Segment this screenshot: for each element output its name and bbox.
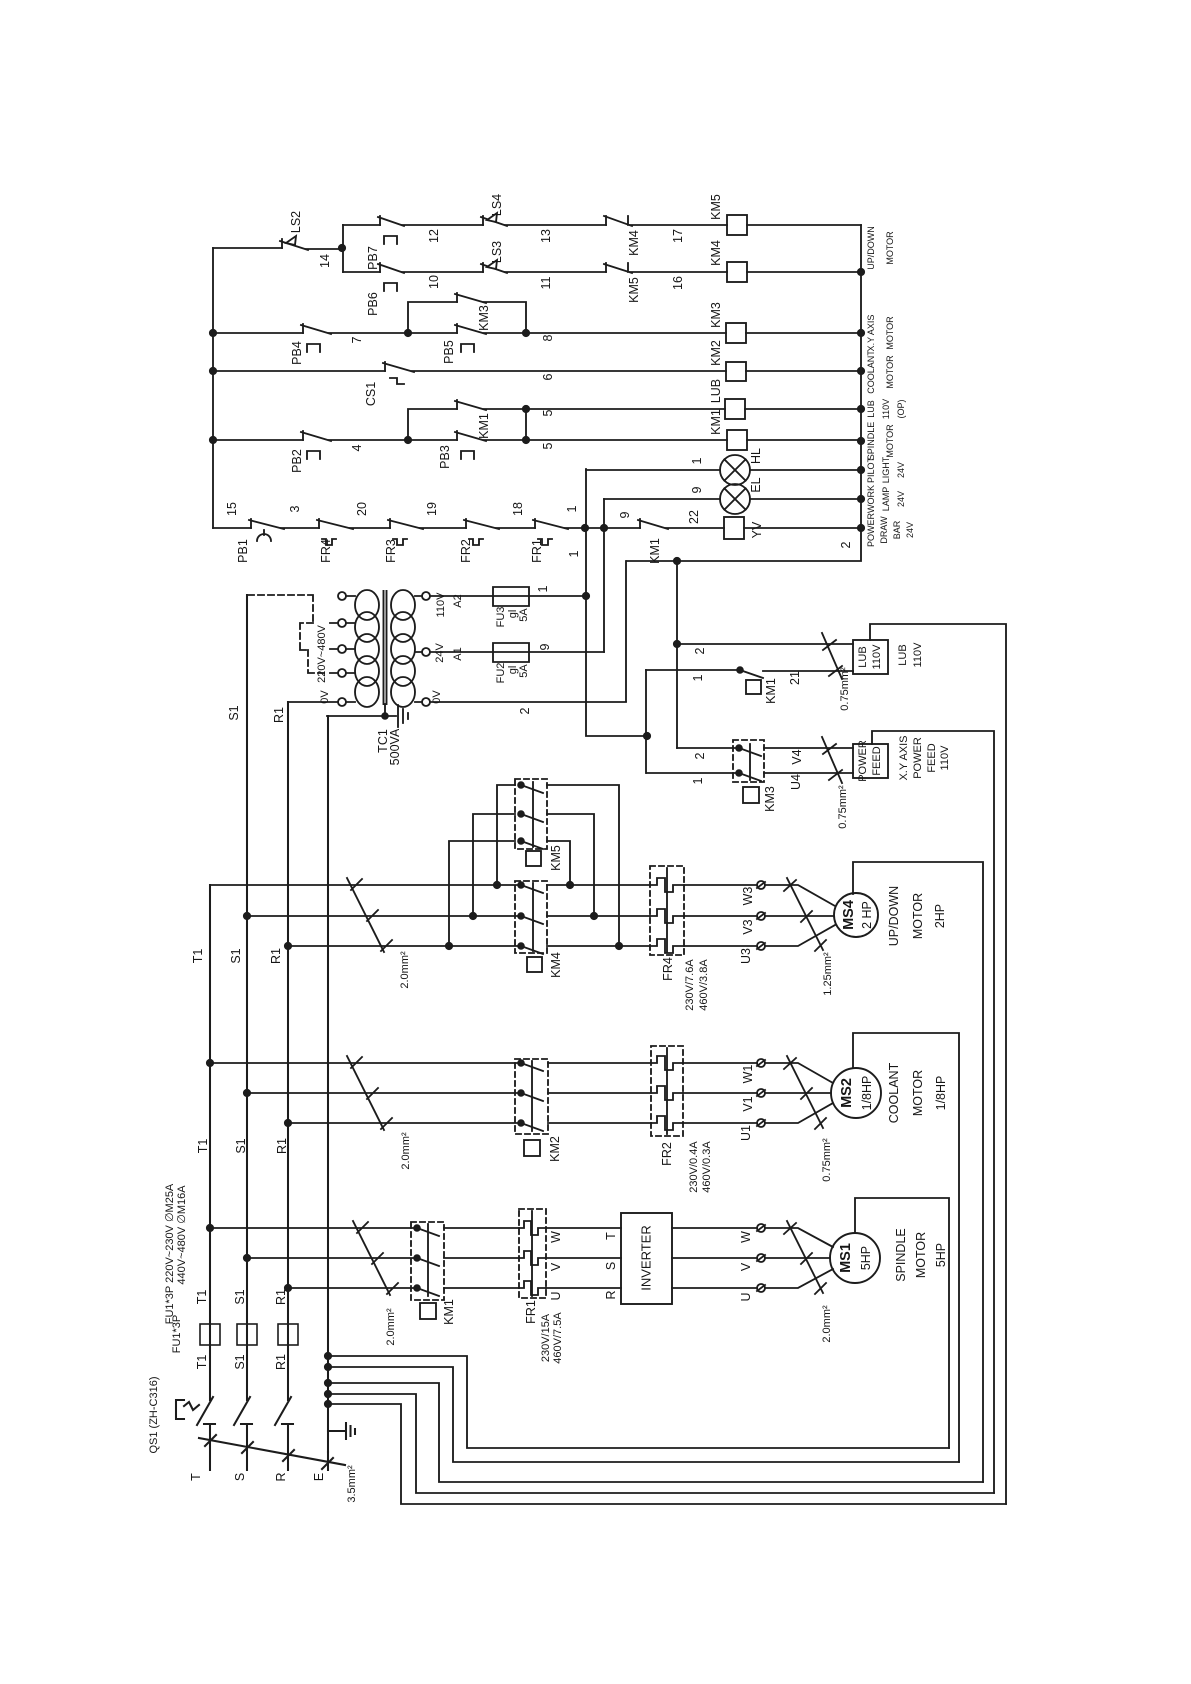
svg-text:BAR: BAR (892, 520, 902, 539)
svg-text:8: 8 (541, 334, 555, 341)
svg-text:QS1 (ZH-C316): QS1 (ZH-C316) (148, 1376, 160, 1453)
svg-text:21: 21 (788, 671, 802, 685)
svg-text:1.25mm²: 1.25mm² (822, 952, 834, 996)
svg-text:FU1*3P 220V~230V ∅M25A: FU1*3P 220V~230V ∅M25A (164, 1183, 176, 1324)
svg-text:U: U (549, 1291, 563, 1300)
svg-text:MS4: MS4 (841, 900, 857, 930)
svg-text:FR2: FR2 (459, 539, 473, 563)
svg-text:X.Y AXIS: X.Y AXIS (898, 735, 910, 780)
svg-text:FR1: FR1 (530, 539, 544, 563)
svg-text:KM3: KM3 (709, 302, 723, 328)
svg-text:110V: 110V (435, 592, 447, 618)
svg-text:KM1: KM1 (648, 538, 662, 564)
svg-text:U1: U1 (739, 1125, 753, 1141)
svg-text:W: W (739, 1231, 753, 1243)
svg-text:E: E (312, 1473, 326, 1481)
svg-text:KM3: KM3 (763, 786, 777, 812)
svg-text:1: 1 (536, 585, 550, 592)
svg-text:110V: 110V (912, 642, 924, 668)
svg-text:LS2: LS2 (289, 211, 303, 233)
svg-text:FR1: FR1 (524, 1300, 538, 1324)
svg-text:PB1: PB1 (236, 539, 250, 563)
svg-text:KM5: KM5 (549, 845, 563, 871)
svg-text:110V: 110V (871, 644, 883, 670)
svg-text:LUB: LUB (709, 379, 723, 403)
svg-text:9: 9 (690, 486, 704, 493)
svg-text:PB3: PB3 (438, 445, 452, 469)
svg-text:R1: R1 (275, 1138, 289, 1154)
svg-text:PB7: PB7 (366, 246, 380, 270)
svg-text:(OP): (OP) (896, 399, 906, 418)
svg-text:V: V (739, 1262, 753, 1271)
svg-text:4: 4 (350, 444, 364, 451)
svg-text:S: S (604, 1262, 618, 1270)
svg-text:220V~480V: 220V~480V (316, 624, 328, 682)
svg-text:20: 20 (355, 502, 369, 516)
svg-text:S1: S1 (233, 1354, 247, 1369)
svg-text:5A: 5A (518, 608, 530, 622)
svg-text:FR2: FR2 (660, 1142, 674, 1166)
svg-text:FR4: FR4 (319, 539, 333, 563)
svg-text:PB5: PB5 (442, 340, 456, 364)
svg-text:T1: T1 (196, 1139, 210, 1154)
svg-text:5: 5 (541, 442, 555, 449)
svg-text:R1: R1 (269, 948, 283, 964)
svg-text:16: 16 (671, 276, 685, 290)
svg-text:MOTOR: MOTOR (911, 1070, 925, 1116)
svg-text:R1: R1 (272, 707, 286, 723)
svg-text:W1: W1 (741, 1065, 755, 1084)
svg-text:T1: T1 (195, 1290, 209, 1305)
svg-text:19: 19 (425, 502, 439, 516)
svg-text:LIGHT: LIGHT (881, 456, 891, 483)
svg-text:2: 2 (693, 647, 707, 654)
svg-text:500VA: 500VA (388, 728, 402, 765)
svg-text:INVERTER: INVERTER (639, 1225, 654, 1291)
svg-text:230V/15A: 230V/15A (540, 1313, 552, 1362)
svg-text:440V~480V ∅M16A: 440V~480V ∅M16A (176, 1185, 188, 1285)
svg-text:MOTOR: MOTOR (914, 1232, 928, 1278)
svg-text:S1: S1 (233, 1289, 247, 1304)
svg-text:U3: U3 (739, 948, 753, 964)
svg-text:S1: S1 (229, 948, 243, 963)
svg-text:2.0mm²: 2.0mm² (821, 1305, 833, 1343)
svg-text:COOLANT: COOLANT (887, 1062, 901, 1123)
svg-text:0V: 0V (431, 690, 443, 704)
svg-text:LUB: LUB (857, 646, 869, 667)
svg-text:EL: EL (749, 477, 763, 492)
svg-text:V: V (549, 1262, 563, 1271)
svg-text:1/8HP: 1/8HP (860, 1076, 874, 1111)
svg-text:2 HP: 2 HP (860, 901, 874, 929)
svg-text:FEED: FEED (926, 743, 938, 772)
svg-text:KM2: KM2 (709, 340, 723, 366)
svg-text:9: 9 (618, 511, 632, 518)
svg-text:6: 6 (541, 373, 555, 380)
svg-text:230V/0.4A: 230V/0.4A (688, 1141, 700, 1193)
svg-text:1/8HP: 1/8HP (934, 1076, 948, 1111)
svg-text:MOTOR: MOTOR (885, 316, 895, 350)
svg-text:S: S (233, 1473, 247, 1481)
svg-text:3: 3 (288, 505, 302, 512)
svg-text:KM4: KM4 (627, 230, 641, 256)
svg-text:13: 13 (539, 229, 553, 243)
svg-text:LUB: LUB (866, 400, 876, 418)
svg-text:R1: R1 (274, 1354, 288, 1370)
svg-text:0.75mm²: 0.75mm² (821, 1138, 833, 1182)
svg-text:SPINDLE: SPINDLE (866, 422, 876, 461)
svg-text:WORK: WORK (866, 485, 876, 513)
svg-text:3.5mm²: 3.5mm² (346, 1465, 358, 1503)
svg-text:0.75mm²: 0.75mm² (839, 667, 851, 711)
svg-text:5: 5 (541, 409, 555, 416)
svg-text:18: 18 (511, 502, 525, 516)
svg-text:KM3: KM3 (477, 305, 491, 331)
svg-text:15: 15 (225, 502, 239, 516)
svg-text:0.75mm²: 0.75mm² (837, 785, 849, 829)
svg-text:PB4: PB4 (290, 341, 304, 365)
svg-text:10: 10 (427, 275, 441, 289)
svg-text:5HP: 5HP (934, 1243, 948, 1267)
svg-text:5HP: 5HP (859, 1246, 873, 1270)
svg-text:V1: V1 (741, 1096, 755, 1111)
svg-text:110V: 110V (939, 745, 951, 771)
svg-text:T: T (604, 1232, 618, 1240)
svg-text:MS1: MS1 (838, 1243, 854, 1273)
svg-text:KM5: KM5 (627, 277, 641, 303)
svg-text:22: 22 (687, 510, 701, 524)
svg-text:R1: R1 (274, 1289, 288, 1305)
svg-text:460V/0.3A: 460V/0.3A (701, 1141, 713, 1193)
svg-text:PILOT: PILOT (866, 456, 876, 483)
svg-text:MOTOR: MOTOR (885, 424, 895, 458)
svg-text:A1: A1 (452, 647, 464, 660)
svg-text:2HP: 2HP (933, 904, 947, 928)
svg-text:FU3: FU3 (495, 607, 507, 628)
svg-text:U: U (739, 1292, 753, 1301)
svg-text:POWER: POWER (912, 737, 924, 779)
svg-text:KM4: KM4 (549, 952, 563, 978)
svg-text:LS4: LS4 (490, 194, 504, 216)
svg-text:MOTOR: MOTOR (885, 231, 895, 265)
svg-text:KM1: KM1 (709, 409, 723, 435)
svg-text:PB2: PB2 (290, 449, 304, 473)
svg-text:R: R (604, 1290, 618, 1299)
svg-text:230V/7.6A: 230V/7.6A (684, 959, 696, 1011)
svg-text:24V: 24V (905, 522, 915, 538)
svg-text:DRAW: DRAW (879, 516, 889, 544)
svg-text:KM2: KM2 (548, 1136, 562, 1162)
svg-text:7: 7 (350, 336, 364, 343)
svg-text:CS1: CS1 (364, 382, 378, 406)
svg-text:11: 11 (539, 276, 553, 289)
svg-text:YV: YV (750, 521, 764, 538)
svg-text:2: 2 (693, 752, 707, 759)
svg-text:1: 1 (565, 505, 579, 512)
svg-text:X.Y AXIS: X.Y AXIS (866, 315, 876, 352)
svg-text:12: 12 (427, 229, 441, 243)
svg-text:14: 14 (318, 254, 332, 268)
svg-text:S1: S1 (234, 1138, 248, 1153)
svg-text:LUB: LUB (897, 644, 909, 665)
svg-text:460V/3.8A: 460V/3.8A (698, 959, 710, 1011)
svg-text:POWER: POWER (866, 513, 876, 548)
svg-text:T1: T1 (195, 1355, 209, 1370)
svg-text:KM1: KM1 (442, 1299, 456, 1325)
svg-text:LS3: LS3 (490, 241, 504, 263)
svg-text:W: W (549, 1231, 563, 1243)
svg-text:17: 17 (671, 229, 685, 243)
svg-text:MS2: MS2 (839, 1078, 855, 1108)
svg-text:T1: T1 (191, 949, 205, 964)
svg-text:T: T (189, 1473, 203, 1481)
svg-text:POWER: POWER (857, 740, 869, 782)
svg-text:KM5: KM5 (709, 194, 723, 220)
svg-text:FR4: FR4 (661, 957, 675, 981)
svg-text:HL: HL (749, 448, 763, 464)
svg-text:5A: 5A (518, 664, 530, 678)
svg-text:2.0mm²: 2.0mm² (400, 1132, 412, 1170)
svg-text:V3: V3 (741, 919, 755, 934)
svg-text:0V: 0V (319, 690, 331, 704)
svg-text:24V: 24V (434, 643, 446, 663)
svg-text:PB6: PB6 (366, 292, 380, 316)
svg-text:W3: W3 (741, 887, 755, 906)
svg-text:2.0mm²: 2.0mm² (399, 951, 411, 989)
svg-text:110V: 110V (881, 399, 891, 419)
svg-text:V4: V4 (790, 749, 804, 764)
svg-text:FR3: FR3 (384, 539, 398, 563)
svg-text:SPINDLE: SPINDLE (894, 1228, 908, 1282)
svg-text:FU2: FU2 (495, 663, 507, 684)
svg-text:1: 1 (691, 674, 705, 681)
svg-text:24V: 24V (896, 462, 906, 478)
svg-text:1: 1 (567, 550, 581, 557)
svg-text:KM1: KM1 (764, 678, 778, 704)
svg-text:UP/DOWN: UP/DOWN (887, 886, 901, 946)
svg-text:KM4: KM4 (709, 240, 723, 266)
svg-text:1: 1 (691, 777, 705, 784)
svg-text:24V: 24V (896, 491, 906, 507)
svg-text:460V/7.5A: 460V/7.5A (552, 1312, 564, 1364)
svg-text:UP/DOWN: UP/DOWN (866, 226, 876, 270)
svg-text:S1: S1 (227, 705, 241, 720)
svg-text:2.0mm²: 2.0mm² (385, 1308, 397, 1346)
svg-text:2: 2 (518, 707, 532, 714)
svg-text:LAMP: LAMP (881, 487, 891, 512)
svg-text:9: 9 (538, 643, 552, 650)
svg-text:A2: A2 (452, 594, 464, 607)
svg-text:R: R (274, 1472, 288, 1481)
svg-text:2: 2 (839, 541, 853, 548)
svg-text:FEED: FEED (871, 746, 883, 775)
svg-text:U4: U4 (789, 774, 803, 790)
svg-text:COOLANT: COOLANT (866, 350, 876, 394)
svg-text:MOTOR: MOTOR (911, 893, 925, 939)
svg-text:MOTOR: MOTOR (885, 355, 895, 389)
svg-text:1: 1 (690, 457, 704, 464)
svg-text:KM1: KM1 (477, 413, 491, 439)
